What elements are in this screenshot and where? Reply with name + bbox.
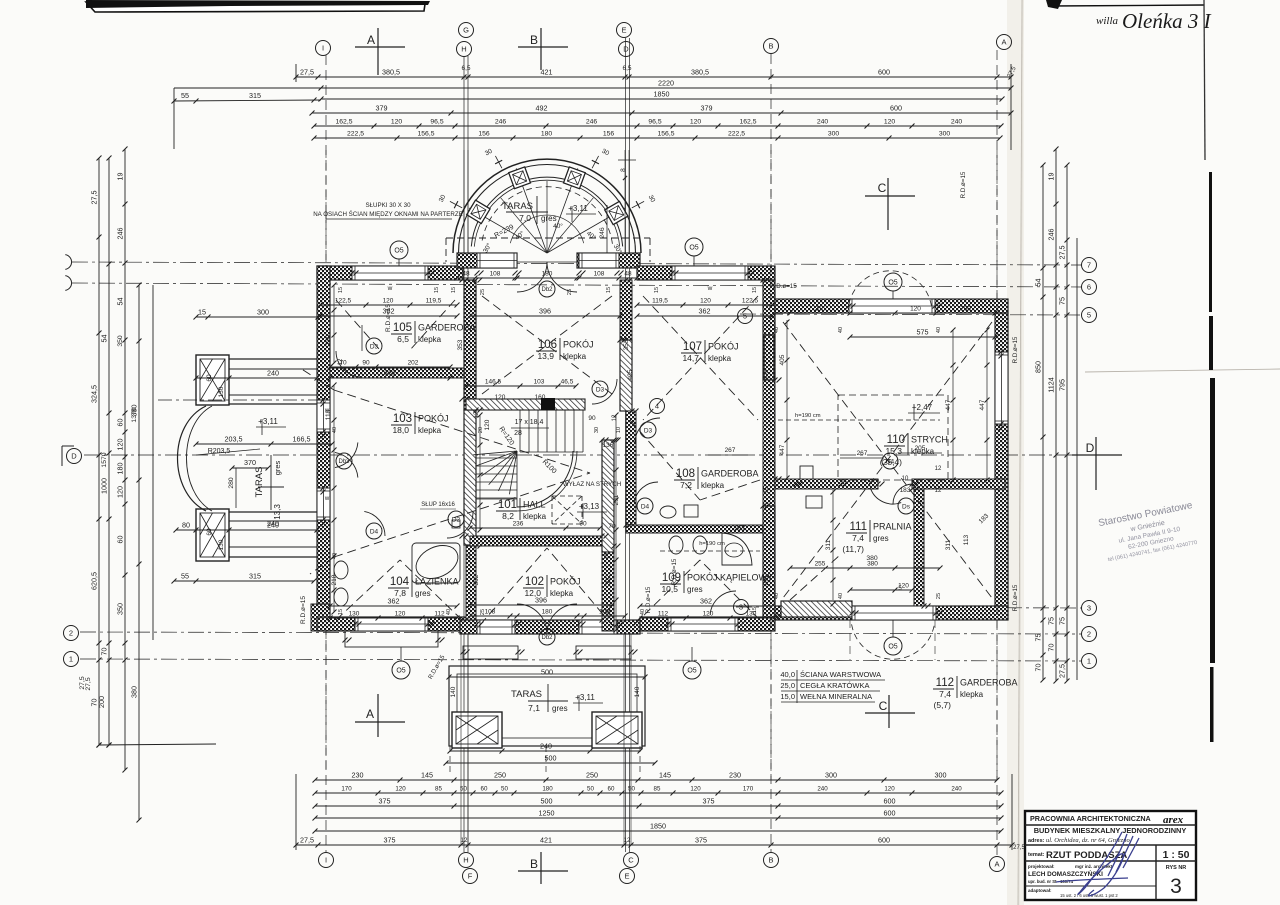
svg-text:120: 120 (395, 611, 406, 618)
right dim col 1 (1042, 165, 1044, 680)
svg-text:E: E (624, 872, 629, 881)
svg-text:180: 180 (116, 463, 125, 475)
svg-text:230: 230 (729, 771, 741, 780)
svg-text:adaptował:: adaptował: (1028, 888, 1052, 893)
svg-text:10: 10 (902, 476, 909, 482)
svg-text:15: 15 (752, 607, 758, 613)
svg-text:375: 375 (384, 836, 396, 845)
svg-text:85: 85 (654, 786, 661, 793)
svg-text:2220: 2220 (658, 79, 674, 88)
svg-text:203,5: 203,5 (225, 435, 243, 444)
scan artifact top strip (86, 2, 425, 12)
svg-text:7,4: 7,4 (852, 533, 864, 543)
svg-text:27,5: 27,5 (1058, 664, 1067, 678)
window sill slashes bottom left (343, 638, 348, 643)
wall right wing right (995, 313, 1008, 607)
top terrace column square 4 (467, 200, 490, 223)
right dim col 2 (1055, 149, 1057, 681)
left terrace dims (196, 443, 332, 445)
svg-text:103: 103 (393, 413, 412, 425)
svg-text:250: 250 (586, 771, 598, 780)
svg-text:311: 311 (825, 539, 832, 550)
roof dashes 111 112 (790, 555, 840, 600)
grid bubble E bottom (620, 869, 635, 884)
svg-text:I: I (322, 44, 324, 53)
svg-text:246: 246 (586, 119, 598, 126)
svg-text:40: 40 (838, 327, 844, 333)
svg-text:TARAS: TARAS (511, 689, 542, 700)
axis 6 horizontal dash-dot (72, 283, 1082, 287)
top terrace inner arc (471, 177, 622, 246)
svg-text:375: 375 (695, 836, 707, 845)
O5 bubble top left (390, 241, 408, 259)
svg-text:+3,13: +3,13 (579, 502, 600, 511)
svg-text:BUDYNEK MIESZKALNY JEDNORODZIN: BUDYNEK MIESZKALNY JEDNORODZINNY (1034, 826, 1187, 835)
door D2 hall-104 (447, 512, 473, 538)
svg-text:+3,11: +3,11 (575, 693, 595, 702)
grid axis C vertical double (625, 38, 627, 852)
svg-text:315: 315 (249, 572, 261, 581)
O5 bubble wing top (884, 273, 902, 291)
svg-text:O5: O5 (888, 644, 897, 651)
wall wing left lower (763, 506, 775, 620)
starostwo stamp (1097, 500, 1200, 563)
svg-text:10: 10 (616, 427, 622, 433)
svg-text:G: G (463, 26, 469, 35)
bottom dim line C (315, 805, 1001, 807)
top terrace label TARAS (506, 211, 548, 213)
wall left exterior (317, 266, 330, 631)
wall under 106 hatched (466, 399, 585, 410)
svg-text:50: 50 (628, 786, 635, 793)
svg-text:600: 600 (878, 68, 890, 77)
svg-text:145: 145 (659, 771, 671, 780)
svg-text:A: A (367, 33, 375, 47)
svg-text:POKÓJ: POKÓJ (550, 577, 581, 587)
axis bubble 4 plan (650, 399, 665, 414)
left dim col 3 (124, 149, 126, 770)
window bottom 109 (668, 617, 738, 631)
svg-text:6,5: 6,5 (461, 65, 470, 72)
svg-text:120: 120 (116, 439, 125, 451)
door Db2 bottom opening (517, 604, 547, 634)
svg-text:130: 130 (218, 539, 225, 550)
svg-text:48: 48 (462, 271, 470, 278)
svg-text:6: 6 (1087, 283, 1091, 292)
O5 bubble bottom left (392, 661, 410, 679)
door bubble D2 (448, 511, 464, 527)
axis 5 horizontal dash-dot (740, 314, 1082, 315)
top terrace column square 3 (509, 167, 531, 189)
svg-text:7: 7 (1087, 261, 1091, 270)
bottom terrace pillar left (452, 712, 502, 748)
door bubble D4 108 (637, 498, 653, 514)
horizontal fold crease right (1085, 369, 1280, 372)
svg-text:75: 75 (1058, 297, 1067, 305)
svg-text:25: 25 (466, 553, 472, 559)
svg-text:1: 1 (1087, 657, 1091, 666)
svg-text:102: 102 (525, 576, 544, 588)
svg-text:HALL: HALL (523, 500, 546, 510)
svg-text:ŚCIANA WARSTWOWA: ŚCIANA WARSTWOWA (800, 670, 881, 679)
svg-text:1850: 1850 (654, 90, 670, 99)
dim wing top 255 120 200 575 (790, 312, 995, 314)
svg-text:2: 2 (1087, 630, 1091, 639)
svg-text:70: 70 (608, 523, 616, 530)
svg-text:120: 120 (703, 611, 714, 618)
wall end ticks interior (460, 278, 465, 283)
door bubble Ds (898, 498, 914, 514)
svg-text:120: 120 (690, 119, 702, 126)
top terrace dashed mid arc (482, 187, 613, 244)
window bottom left (355, 617, 428, 631)
bottom dim line A (315, 779, 997, 781)
svg-text:362: 362 (383, 307, 395, 316)
svg-text:300: 300 (828, 131, 840, 138)
svg-text:R.D.ø=15: R.D.ø=15 (645, 586, 652, 613)
svg-text:1000: 1000 (100, 478, 109, 494)
svg-text:240: 240 (267, 519, 279, 528)
svg-text:162,5: 162,5 (335, 119, 352, 126)
svg-text:75: 75 (1058, 617, 1067, 625)
svg-text:267: 267 (857, 450, 868, 457)
svg-text:1124: 1124 (1047, 377, 1056, 392)
svg-text:R.D.ø=15: R.D.ø=15 (960, 171, 967, 198)
stair landing line (516, 451, 518, 507)
wall wing left upper (763, 280, 775, 380)
svg-text:klepka: klepka (960, 690, 984, 699)
svg-text:130: 130 (218, 386, 225, 397)
svg-text:klepka: klepka (701, 481, 725, 490)
svg-text:w: w (387, 285, 393, 292)
bottom terrace outline (449, 666, 645, 746)
grid bubble B top (764, 39, 779, 54)
svg-text:447: 447 (945, 399, 952, 410)
svg-text:405: 405 (763, 369, 770, 380)
left partial bubble 7 (65, 255, 71, 270)
dim 396 room 106 (470, 315, 620, 317)
top terrace outer tick marks 30 (450, 201, 462, 208)
roof dashes room 102 (480, 548, 547, 625)
top terrace angle arc small (510, 215, 583, 243)
svg-text:STRYCH: STRYCH (911, 435, 948, 445)
door D4 104 (364, 511, 385, 536)
svg-text:118: 118 (325, 409, 332, 420)
svg-text:19: 19 (1047, 173, 1056, 181)
svg-text:200: 200 (960, 306, 971, 313)
svg-text:170: 170 (341, 786, 352, 793)
dim 108 180 108 102 bottom (470, 615, 625, 617)
svg-text:302: 302 (473, 574, 480, 585)
door D3 107-108 (635, 418, 660, 443)
grid bubble 7 right (1082, 258, 1097, 273)
svg-text:162,5: 162,5 (739, 119, 756, 126)
svg-text:40: 40 (774, 327, 780, 333)
wall hall south (470, 536, 602, 546)
vertical fold crease (1018, 0, 1022, 905)
top terrace column square 2 (564, 167, 586, 189)
svg-text:w: w (324, 496, 330, 502)
svg-text:gres: gres (415, 589, 431, 598)
svg-text:60: 60 (116, 419, 125, 427)
svg-text:WEŁNA MINERALNA: WEŁNA MINERALNA (800, 692, 872, 701)
svg-text:200: 200 (97, 696, 106, 708)
svg-text:h=190 cm: h=190 cm (795, 413, 821, 419)
title block row lines (1025, 824, 1196, 826)
axis 1 horizontal dash-dot (80, 659, 1082, 661)
svg-text:222,5: 222,5 (728, 131, 745, 138)
svg-text:B: B (530, 857, 538, 871)
svg-text:75: 75 (1047, 617, 1056, 625)
svg-text:A: A (994, 860, 999, 869)
svg-text:180: 180 (325, 334, 332, 345)
stair curved stringer R100 (517, 451, 573, 507)
top dim line 2 total 2220 (174, 87, 321, 89)
grid bubble 5 right (1082, 308, 1097, 323)
roof dashes 105 (336, 300, 380, 350)
grid axis H vertical double (463, 56, 465, 852)
svg-text:25: 25 (480, 609, 486, 615)
door bubble Db2 bottom (539, 629, 555, 645)
svg-text:255: 255 (815, 561, 826, 568)
svg-text:362: 362 (384, 369, 396, 378)
wall 108 west vertical (626, 411, 636, 525)
window top left wall (352, 266, 428, 280)
page edge vertical line top right (1204, 0, 1205, 160)
window sill bc left (463, 646, 518, 659)
svg-text:280: 280 (228, 477, 235, 489)
door Ds 111 (893, 484, 913, 504)
svg-text:55: 55 (181, 572, 189, 581)
grid axis I vertical (325, 55, 327, 852)
bottom terrace dim 500 (446, 762, 655, 764)
svg-text:500: 500 (541, 668, 553, 677)
svg-text:Ds: Ds (902, 503, 911, 510)
svg-text:gres: gres (873, 534, 889, 543)
svg-text:50: 50 (501, 786, 508, 793)
svg-text:7,1: 7,1 (528, 703, 540, 713)
section mark B bottom (518, 870, 568, 872)
svg-text:D4: D4 (370, 528, 379, 535)
svg-text:D3: D3 (596, 386, 605, 393)
svg-text:PRACOWNIA ARCHITEKTONICZNA: PRACOWNIA ARCHITEKTONICZNA (1030, 814, 1151, 823)
svg-text:C: C (878, 181, 887, 195)
bottom terrace dim 130 240 130 (450, 750, 640, 752)
svg-text:PRALNIA: PRALNIA (873, 522, 912, 532)
door D3 105-103 (336, 351, 362, 377)
door bubble 3 plan (734, 600, 749, 615)
svg-text:40,0: 40,0 (780, 670, 795, 679)
svg-text:40: 40 (332, 427, 338, 433)
svg-text:180: 180 (542, 271, 553, 278)
bottom terrace dim 500 inner (449, 676, 645, 678)
svg-text:600: 600 (884, 797, 896, 806)
wall bottom 109 exterior (640, 617, 775, 631)
wall 108-109 divider horizontal (626, 525, 763, 533)
door Db3 103 left (335, 442, 358, 467)
svg-text:18,0: 18,0 (392, 425, 409, 435)
svg-text:103: 103 (534, 379, 545, 386)
svg-text:380,5: 380,5 (382, 68, 400, 77)
left end vertical of top dims (173, 88, 175, 149)
svg-text:180: 180 (541, 131, 553, 138)
svg-text:70: 70 (1034, 664, 1043, 672)
svg-text:15: 15 (764, 486, 770, 493)
top terrace radial spokes (547, 208, 625, 253)
wall wing left hatched seg (764, 335, 774, 380)
svg-text:40: 40 (446, 609, 452, 615)
grid bubble H top (457, 42, 472, 57)
grid bubble 1 left (64, 652, 79, 667)
svg-text:600: 600 (890, 104, 902, 113)
svg-text:3: 3 (1087, 604, 1091, 613)
wall stair west hatched (464, 280, 476, 410)
dim 70 90 202 under 105 (330, 366, 450, 368)
svg-text:klepka: klepka (550, 589, 574, 598)
svg-text:B: B (768, 856, 773, 865)
right dim col 3 (1066, 165, 1068, 681)
svg-text:60: 60 (206, 528, 213, 536)
svg-text:13,9: 13,9 (537, 351, 554, 361)
grid bubble 1 right (1082, 654, 1097, 669)
svg-text:324,5: 324,5 (90, 385, 99, 403)
svg-text:6,5: 6,5 (397, 334, 409, 344)
svg-text:15: 15 (451, 287, 457, 293)
svg-text:48: 48 (624, 271, 632, 278)
svg-text:421: 421 (541, 68, 553, 77)
svg-text:O5: O5 (396, 668, 405, 675)
dim 55 315 left bottom (174, 580, 314, 582)
top terrace dashed rectangle (445, 238, 447, 262)
svg-text:575: 575 (917, 328, 929, 337)
svg-text:12: 12 (461, 837, 468, 844)
section mark C right top (865, 195, 915, 197)
left wall step out (311, 604, 330, 631)
door bubble D3 106 (592, 381, 608, 397)
svg-text:156: 156 (478, 131, 490, 138)
svg-text:120: 120 (884, 786, 895, 793)
svg-text:27,5: 27,5 (300, 68, 314, 77)
svg-text:A: A (366, 707, 374, 721)
door bubble D4 110 (882, 453, 898, 469)
O5 bubble wing bottom (884, 637, 902, 655)
section mark A top (355, 46, 405, 48)
window wing bottom (852, 606, 936, 620)
svg-text:(11,7): (11,7) (842, 544, 864, 554)
window bottom center right (579, 620, 617, 634)
svg-text:R203,5: R203,5 (208, 448, 231, 455)
svg-text:POKÓJ: POKÓJ (708, 342, 739, 352)
boiler 110 square (800, 466, 813, 479)
svg-text:gres: gres (687, 585, 703, 594)
svg-text:140: 140 (450, 686, 457, 697)
svg-text:500: 500 (541, 797, 553, 806)
grid bubble D top (619, 42, 634, 57)
svg-text:B: B (768, 42, 773, 51)
svg-text:Db2: Db2 (541, 635, 553, 641)
wall 104-102 divider (466, 546, 476, 620)
section mark D right (1072, 454, 1122, 456)
top terrace column square 1 (605, 201, 628, 224)
left terrace wall bottom (229, 511, 317, 513)
dim 130 120 112 104 bottom (330, 617, 457, 619)
svg-text:SŁUPKI 30 X 30: SŁUPKI 30 X 30 (365, 202, 411, 209)
svg-text:w: w (707, 285, 713, 292)
svg-text:379: 379 (376, 104, 388, 113)
svg-text:85: 85 (435, 786, 442, 793)
svg-text:O5: O5 (888, 280, 897, 287)
svg-text:492: 492 (536, 104, 548, 113)
roof dashes room 104 (336, 560, 400, 620)
svg-text:gres: gres (273, 460, 282, 475)
svg-text:362: 362 (699, 307, 711, 316)
grid bubble A bottom (990, 857, 1005, 872)
svg-text:1250: 1250 (539, 809, 555, 818)
svg-text:19: 19 (116, 173, 125, 181)
svg-text:113: 113 (963, 534, 970, 545)
window left wall upper (317, 400, 330, 432)
door bubble Db3 (336, 453, 352, 469)
svg-text:WYŁAZ NA STRYCH: WYŁAZ NA STRYCH (563, 481, 621, 488)
stair lower steps (476, 457, 517, 459)
dim 48 108 180 108 48 arch wall (457, 277, 637, 279)
svg-text:850: 850 (1034, 361, 1043, 373)
grid axis B vertical (770, 54, 772, 852)
svg-text:A: A (1001, 38, 1006, 47)
door bubble D4 104 (366, 523, 382, 539)
axis D horizontal dash-dot (84, 454, 1086, 456)
svg-text:240: 240 (951, 119, 963, 126)
svg-text:108: 108 (594, 271, 605, 278)
svg-text:7,4: 7,4 (939, 689, 951, 699)
dim 119,5 120 122,5 room107 (637, 304, 772, 306)
door D3 109 (710, 591, 736, 615)
svg-text:104: 104 (390, 576, 410, 588)
svg-text:90: 90 (579, 521, 587, 528)
svg-text:156,5: 156,5 (657, 131, 674, 138)
svg-text:RYS NR: RYS NR (1166, 865, 1187, 871)
dim chain wing left inside (785, 320, 790, 325)
dashed arc wing bottom (852, 624, 935, 659)
grid axis A vertical (996, 50, 998, 856)
window sill bc right (576, 646, 631, 659)
svg-text:GARDEROBA: GARDEROBA (960, 678, 1018, 688)
svg-text:15,0: 15,0 (780, 692, 795, 701)
svg-text:D3: D3 (644, 427, 653, 434)
svg-text:25: 25 (480, 289, 486, 295)
svg-text:60: 60 (608, 786, 615, 793)
svg-text:40: 40 (838, 593, 844, 599)
svg-text:405: 405 (779, 354, 786, 365)
axis 2 horizontal dash-dot (80, 632, 1082, 634)
svg-text:ŁAZIENKA: ŁAZIENKA (415, 577, 459, 587)
svg-text:205: 205 (915, 445, 926, 452)
wall 111 east vertical (914, 489, 924, 606)
svg-text:120: 120 (116, 486, 125, 498)
scanner black bar right edge (1209, 172, 1212, 312)
dashed arc wing top (849, 271, 932, 306)
svg-text:170: 170 (743, 786, 754, 793)
grid bubble F bottom (463, 869, 478, 884)
dim 246 vertical right of arch (606, 205, 608, 262)
svg-text:54: 54 (116, 298, 125, 306)
door D3 106-hall (592, 379, 617, 404)
svg-text:120: 120 (495, 394, 506, 401)
svg-text:54: 54 (1034, 279, 1043, 287)
svg-text:H: H (461, 45, 466, 54)
grid bubble C bottom (624, 853, 639, 868)
svg-text:12: 12 (624, 837, 631, 844)
